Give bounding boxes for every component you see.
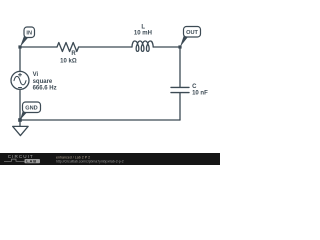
svg-text:C: C <box>192 84 197 90</box>
resistor R <box>57 43 79 52</box>
wire right vertical <box>179 47 181 120</box>
net label GND pointer <box>20 110 27 120</box>
junction node at GND <box>18 118 22 122</box>
junction node at OUT corner <box>178 45 181 48</box>
svg-text:http://circuitlab.com/c/pbma7y: http://circuitlab.com/c/pbma7ymbpx/lab-2… <box>56 160 124 164</box>
net label IN pointer <box>20 35 28 47</box>
svg-text:square: square <box>33 79 53 85</box>
svg-text:Vi: Vi <box>33 72 39 78</box>
voltage source sine glyph <box>14 76 26 84</box>
svg-text:R: R <box>71 51 76 57</box>
junction node at IN corner <box>18 45 21 48</box>
svg-text:666.6 Hz: 666.6 Hz <box>33 85 57 91</box>
svg-text:10 nF: 10 nF <box>192 90 208 96</box>
footer logo waveform <box>4 159 25 161</box>
net label OUT pointer <box>180 35 188 47</box>
net label IN box <box>24 27 35 38</box>
svg-text:GND: GND <box>25 106 37 112</box>
svg-text:enhanced / Lab 2 P 2: enhanced / Lab 2 P 2 <box>56 155 90 159</box>
voltage source Vi circle <box>11 71 29 89</box>
voltage source minus sign <box>19 87 22 89</box>
svg-text:IN: IN <box>26 30 32 36</box>
svg-text:OUT: OUT <box>186 30 198 36</box>
net label GND box <box>23 102 41 113</box>
wire bottom <box>20 119 180 121</box>
footer logo LAB tag <box>25 159 41 163</box>
inductor L <box>132 41 153 51</box>
svg-text:LAB: LAB <box>26 159 37 164</box>
svg-text:10 kΩ: 10 kΩ <box>60 58 77 64</box>
wire left vertical <box>19 47 21 120</box>
net label OUT box <box>184 27 201 38</box>
voltage source plus sign <box>19 73 22 76</box>
wire top (node IN to node OUT) <box>20 46 180 48</box>
svg-text:10 mH: 10 mH <box>134 30 152 36</box>
ground symbol <box>13 120 28 136</box>
capacitor C plates <box>171 87 189 92</box>
footer bar <box>0 153 220 165</box>
